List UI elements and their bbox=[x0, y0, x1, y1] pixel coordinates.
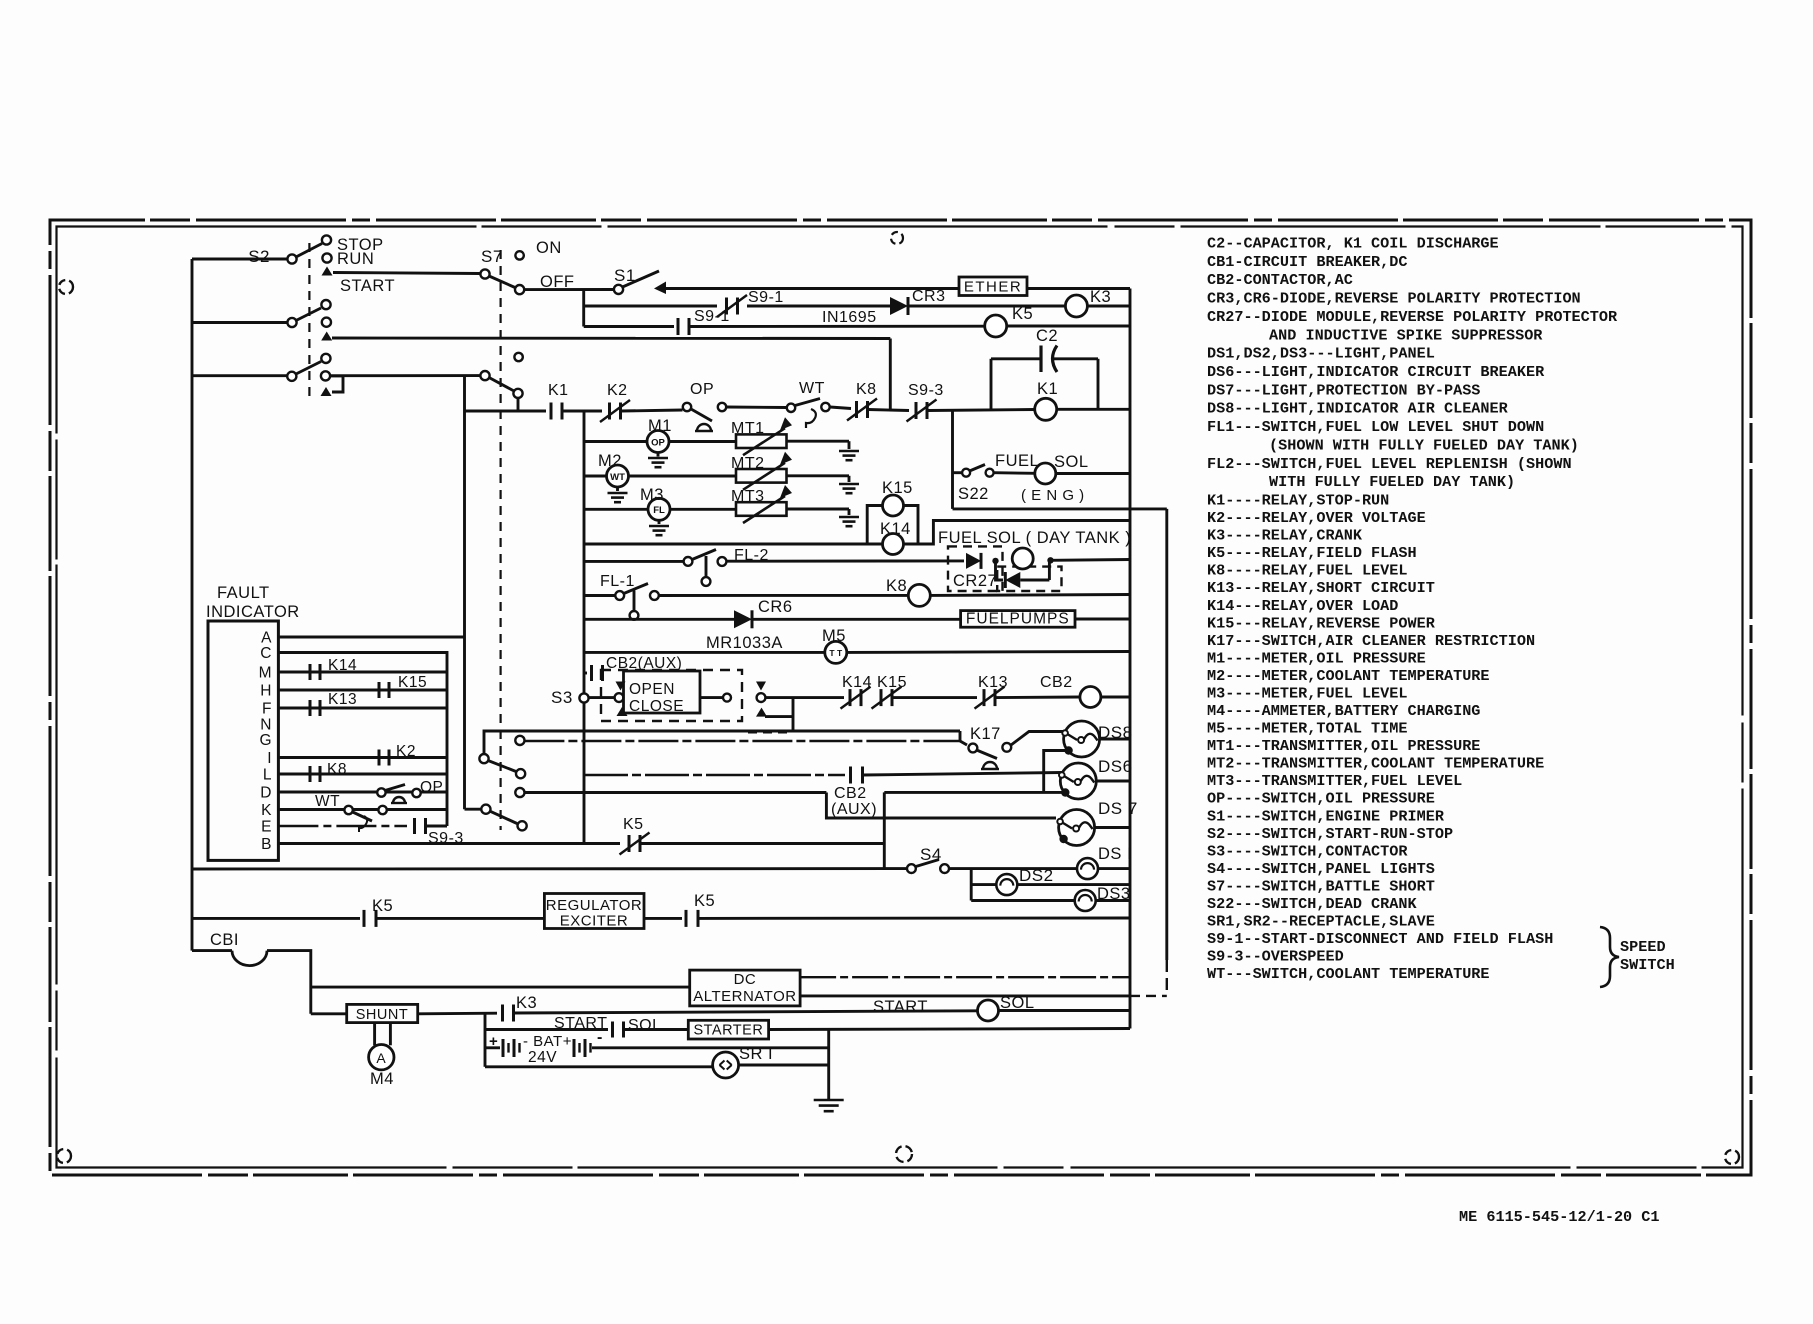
svg-text:K14---RELAY,OVER LOAD: K14---RELAY,OVER LOAD bbox=[1207, 597, 1398, 615]
svg-text:DC: DC bbox=[734, 971, 757, 988]
wire K15 to K13 bbox=[893, 696, 977, 699]
wire S2 pole2 feed bbox=[192, 321, 287, 324]
wire S9-1 NO row bbox=[584, 325, 674, 328]
svg-text:K15: K15 bbox=[877, 674, 907, 691]
svg-text:S2: S2 bbox=[248, 247, 270, 266]
wire DS3 to right bus bbox=[1096, 899, 1130, 902]
wire bus to CB1 bbox=[192, 949, 232, 952]
svg-text:C2--CAPACITOR, K1 COIL DISCHAR: C2--CAPACITOR, K1 COIL DISCHARGE bbox=[1207, 235, 1499, 253]
wire CR6 to FUELPUMPS bbox=[752, 618, 961, 621]
switch pole B bbox=[481, 805, 490, 814]
svg-text:K5: K5 bbox=[1012, 305, 1033, 323]
contactor coil CB2 bbox=[1080, 687, 1101, 708]
wire C2 bracket right bbox=[1097, 359, 1100, 409]
svg-text:K3----RELAY,CRANK: K3----RELAY,CRANK bbox=[1207, 527, 1363, 545]
svg-text:K1: K1 bbox=[1037, 380, 1058, 398]
wire S22 enclosure left vertical bbox=[951, 411, 954, 509]
contact K3 crank bbox=[501, 1005, 504, 1022]
wire K8 coil to right bus bbox=[930, 593, 1130, 597]
svg-text:G: G bbox=[259, 732, 272, 749]
wire MT2 to ground bbox=[787, 474, 850, 477]
registration mark bottom center bbox=[896, 1146, 912, 1162]
svg-text:SOL: SOL bbox=[1054, 453, 1089, 471]
riser to S4 row bbox=[883, 792, 886, 868]
contact K5 second bbox=[685, 910, 688, 927]
svg-text:K13: K13 bbox=[978, 674, 1008, 691]
wire fault row F bbox=[278, 707, 447, 710]
wire fault row C bbox=[278, 653, 447, 827]
svg-text:OPEN: OPEN bbox=[629, 681, 675, 698]
switch S2 pole3 bbox=[287, 372, 296, 381]
contact K14 fault bbox=[309, 664, 312, 680]
ground after MT2 bbox=[848, 476, 851, 482]
wire M3 to MT3 bbox=[670, 508, 736, 511]
wire MT3 to ground bbox=[787, 508, 850, 511]
lamp DS1 panel bbox=[1077, 858, 1098, 879]
wire ENG enclosure bottom row bbox=[953, 507, 1167, 510]
relay coil K3 bbox=[1065, 295, 1087, 317]
svg-text:REGULATOR: REGULATOR bbox=[546, 897, 642, 914]
svg-text:SOL: SOL bbox=[628, 1017, 662, 1034]
svg-text:DS6---LIGHT,INDICATOR CIRCUIT: DS6---LIGHT,INDICATOR CIRCUIT BREAKER bbox=[1207, 363, 1545, 381]
svg-text:START: START bbox=[340, 277, 395, 295]
wire S2 pole3 step bbox=[330, 376, 343, 392]
border frame inner bbox=[57, 227, 1743, 1168]
svg-text:K8----RELAY,FUEL LEVEL: K8----RELAY,FUEL LEVEL bbox=[1207, 562, 1408, 580]
contact K15 normally closed bbox=[880, 689, 883, 706]
wire S2 pole3 row to S7 pole2 bbox=[330, 374, 480, 377]
wire K2-OP bbox=[621, 410, 683, 411]
svg-text:START: START bbox=[873, 998, 928, 1016]
wire pole B throw row bbox=[524, 791, 826, 794]
svg-text:WT: WT bbox=[610, 472, 625, 483]
svg-text:FL-1: FL-1 bbox=[600, 573, 635, 590]
wire S9-1 NC to CR3 bbox=[747, 305, 890, 308]
contact K2 normally closed bbox=[608, 403, 611, 420]
node day tank right bbox=[1047, 557, 1053, 563]
svg-text:STARTER: STARTER bbox=[693, 1023, 763, 1039]
wire fault row H bbox=[278, 689, 447, 692]
switch S3 terminal bbox=[579, 693, 588, 702]
contact S9-3 fault bbox=[413, 818, 416, 834]
wire K5 to regulator box bbox=[376, 917, 544, 920]
svg-text:DS6: DS6 bbox=[1098, 757, 1133, 776]
svg-text:K5: K5 bbox=[372, 897, 393, 915]
wire DS8 to right bus bbox=[1100, 738, 1130, 741]
wire contact row start bbox=[465, 410, 547, 413]
wire K3 coil to right bus bbox=[1087, 305, 1130, 308]
wire FL1 to K8 coil bbox=[659, 594, 909, 597]
wire S9-1 NC row bbox=[584, 305, 717, 308]
wire left bus vertical bbox=[191, 259, 194, 951]
wire alternator feed row bbox=[311, 986, 690, 989]
switch FL-2 bbox=[684, 557, 693, 566]
svg-text:-: - bbox=[597, 1029, 603, 1046]
switch S7 pole2 bbox=[480, 371, 489, 380]
svg-text:M2: M2 bbox=[598, 452, 622, 470]
receptacle SR1 bbox=[713, 1052, 739, 1078]
wire M5 row bbox=[584, 651, 825, 654]
wire pole A common riser bbox=[484, 731, 960, 759]
svg-text:FL1---SWITCH,FUEL LOW LEVEL SH: FL1---SWITCH,FUEL LOW LEVEL SHUT DOWN bbox=[1207, 418, 1544, 436]
svg-text:MT3---TRANSMITTER,FUEL LEVEL: MT3---TRANSMITTER,FUEL LEVEL bbox=[1207, 772, 1462, 790]
wire M1 to MT1 bbox=[669, 440, 736, 443]
wire S4 to DS1 bbox=[949, 867, 1077, 870]
svg-text:C2: C2 bbox=[1036, 327, 1058, 345]
wire CB2 aux to DS6 bbox=[863, 773, 1063, 776]
svg-text:DS2: DS2 bbox=[1019, 866, 1054, 885]
battery loop right vertical bbox=[827, 1029, 830, 1100]
contact K8 normally closed bbox=[855, 401, 858, 418]
dashed enclosure around contactor switch bbox=[601, 670, 742, 721]
meter M1 oil pressure bbox=[647, 431, 669, 453]
wire S22 to fuel solenoid bbox=[994, 471, 1035, 474]
svg-text:S4: S4 bbox=[920, 845, 942, 864]
wire DS6 to right bus bbox=[1096, 780, 1130, 783]
svg-text:24V: 24V bbox=[528, 1049, 557, 1066]
svg-text:K3: K3 bbox=[516, 994, 537, 1012]
svg-text:RUN: RUN bbox=[337, 250, 374, 268]
svg-text:CB1-CIRCUIT BREAKER,DC: CB1-CIRCUIT BREAKER,DC bbox=[1207, 253, 1408, 271]
registration mark left bbox=[59, 280, 73, 294]
OPEN CLOSE box bbox=[624, 671, 701, 713]
svg-text:K14: K14 bbox=[842, 674, 872, 691]
lamp DS6 circuit breaker indicator bbox=[1060, 763, 1096, 799]
wire S2 pole1 feed bbox=[192, 258, 287, 261]
wire K1 coil to right bus bbox=[1057, 408, 1130, 411]
contact S9-3 normally closed bbox=[915, 402, 918, 419]
registration mark top center bbox=[891, 232, 903, 244]
relay K1 coil bbox=[1035, 398, 1057, 420]
diode CR27 bypass bbox=[996, 561, 1004, 580]
switch pole A bbox=[479, 754, 488, 763]
svg-text:IN1695: IN1695 bbox=[822, 309, 877, 326]
svg-text:A: A bbox=[376, 1050, 386, 1066]
svg-text:S9-1: S9-1 bbox=[694, 308, 730, 325]
svg-text:K8: K8 bbox=[327, 761, 347, 778]
contact K1 normally open bbox=[550, 403, 553, 420]
FUELPUMPS box bbox=[961, 611, 1075, 628]
wire row B continue bbox=[641, 842, 884, 845]
wire starter row bbox=[485, 1028, 608, 1031]
svg-text:K5: K5 bbox=[694, 892, 715, 910]
ETHER box bbox=[959, 277, 1027, 296]
svg-text:ON: ON bbox=[536, 239, 562, 257]
wire DS3 row bbox=[971, 899, 1074, 902]
switch OP fault bbox=[377, 788, 385, 796]
svg-text:MT2---TRANSMITTER,COOLANT TEMP: MT2---TRANSMITTER,COOLANT TEMPERATURE bbox=[1207, 755, 1544, 773]
wire fault row M bbox=[278, 671, 447, 674]
svg-text:S9-1: S9-1 bbox=[748, 289, 784, 306]
svg-text:MR1033A: MR1033A bbox=[706, 634, 783, 652]
feedback bus vertical right bbox=[1165, 509, 1168, 960]
wire step down to K17 row bbox=[959, 731, 962, 741]
svg-text:F: F bbox=[262, 701, 272, 718]
svg-text:N: N bbox=[260, 717, 272, 734]
svg-text:D: D bbox=[260, 785, 272, 802]
svg-text:CB2: CB2 bbox=[1040, 674, 1073, 691]
wire K5 second to right bus bbox=[698, 917, 1130, 920]
right bus vertical bbox=[1129, 289, 1132, 1029]
svg-text:S22: S22 bbox=[958, 485, 989, 503]
registration mark bottom right bbox=[1725, 1150, 1739, 1164]
wire M1 row bbox=[584, 440, 647, 443]
switch S2 mechanical dashed link bbox=[308, 243, 310, 399]
ammeter M4 bbox=[369, 1045, 394, 1070]
switch OP oil pressure bbox=[683, 403, 691, 411]
dashed module box CR27 outer bbox=[948, 546, 1003, 591]
wire fault E to block bus bbox=[426, 825, 447, 828]
svg-text:SR1,SR2--RECEPTACLE,SLAVE: SR1,SR2--RECEPTACLE,SLAVE bbox=[1207, 913, 1435, 931]
svg-text:WT: WT bbox=[315, 793, 340, 810]
svg-text:S22---SWITCH,DEAD CRANK: S22---SWITCH,DEAD CRANK bbox=[1207, 895, 1418, 913]
svg-text:( E N G ): ( E N G ) bbox=[1021, 487, 1085, 504]
wire M5 to right bus bbox=[847, 650, 1130, 654]
wire DS2 row bbox=[971, 883, 996, 886]
wire to K17 switch bbox=[960, 741, 967, 745]
svg-text:K3: K3 bbox=[1090, 288, 1111, 306]
svg-text:K8: K8 bbox=[856, 381, 877, 398]
legend speed switch brace bbox=[1600, 927, 1619, 987]
STARTER box bbox=[688, 1020, 768, 1039]
svg-text:K5----RELAY,FIELD FLASH: K5----RELAY,FIELD FLASH bbox=[1207, 544, 1417, 562]
DC ALTERNATOR box bbox=[690, 970, 800, 1006]
svg-text:- BAT+: - BAT+ bbox=[523, 1033, 572, 1050]
breaker CB1 arc bbox=[232, 951, 267, 966]
svg-text:A: A bbox=[261, 630, 272, 647]
lamp DS3 panel bbox=[1075, 890, 1096, 911]
registration mark bottom left bbox=[57, 1149, 71, 1163]
contact S9-1 normally open bbox=[677, 318, 680, 335]
svg-text:K8: K8 bbox=[886, 577, 907, 595]
svg-text:SWITCH: SWITCH bbox=[1620, 956, 1675, 974]
wire K14 row bbox=[584, 543, 883, 546]
meter M3 fuel level bbox=[648, 498, 670, 520]
svg-text:CR3,CR6-DIODE,REVERSE POLARITY: CR3,CR6-DIODE,REVERSE POLARITY PROTECTIO… bbox=[1207, 290, 1581, 308]
wire SR1 to right bbox=[739, 1064, 829, 1067]
wire S9-3 to K1 coil bbox=[928, 410, 1035, 411]
wire day tank to right bus bbox=[1051, 558, 1131, 562]
wire DS6 lower terminal row bbox=[884, 791, 1062, 794]
svg-text:K13: K13 bbox=[328, 691, 357, 708]
svg-text:K15---RELAY,REVERSE POWER: K15---RELAY,REVERSE POWER bbox=[1207, 614, 1436, 632]
switch WT fault bbox=[344, 806, 352, 814]
contact K14 normally closed bbox=[849, 689, 852, 706]
diode CR3 bbox=[890, 297, 908, 315]
svg-text:K14: K14 bbox=[328, 657, 357, 674]
dashed module box CR27 inner bbox=[997, 567, 1061, 591]
ammeter M4 legs bbox=[373, 1023, 376, 1046]
wire K1-K2 bbox=[562, 410, 602, 413]
wire riser from throw row bbox=[889, 339, 892, 411]
svg-text:CBI: CBI bbox=[210, 931, 239, 949]
wire S1 to ETHER box bbox=[665, 287, 959, 290]
wire alternator lower output bbox=[800, 994, 1130, 997]
ground after MT1 bbox=[848, 441, 851, 449]
wire S22 row bbox=[953, 471, 962, 474]
wire regulator to K5 second bbox=[644, 917, 682, 920]
svg-text:K1----RELAY,STOP-RUN: K1----RELAY,STOP-RUN bbox=[1207, 492, 1389, 510]
wire S2 pole2 throw row bbox=[332, 337, 890, 340]
svg-text:K17---SWITCH,AIR CLEANER RESTR: K17---SWITCH,AIR CLEANER RESTRICTION bbox=[1207, 632, 1535, 650]
svg-text:CB2-CONTACTOR,AC: CB2-CONTACTOR,AC bbox=[1207, 271, 1353, 289]
svg-text:M5: M5 bbox=[822, 627, 846, 645]
svg-text:DS I: DS I bbox=[1098, 845, 1132, 863]
border frame outer bbox=[50, 220, 1751, 1175]
svg-text:FL2---SWITCH,FUEL LEVEL REPLEN: FL2---SWITCH,FUEL LEVEL REPLENISH (SHOWN bbox=[1207, 455, 1572, 473]
wire ETHER to right bus bbox=[1027, 287, 1130, 290]
contact K13 normally closed bbox=[983, 689, 986, 706]
lamp DS2 panel bbox=[996, 874, 1017, 895]
switch FL-1 bbox=[615, 591, 624, 600]
switch S7 pole1 bbox=[480, 269, 489, 278]
wire FUELPUMPS to right bus bbox=[1075, 618, 1130, 621]
svg-text:FUEL: FUEL bbox=[995, 452, 1039, 470]
contact K5 fault row bbox=[628, 835, 631, 852]
wire fault row A to bus bbox=[278, 636, 464, 639]
svg-text:K17: K17 bbox=[970, 725, 1001, 743]
relay coil K15 bbox=[883, 495, 904, 516]
wire CB2 aux row from S3 bus bbox=[584, 774, 845, 776]
contact K13 fault bbox=[309, 700, 312, 716]
wire to SHUNT bbox=[311, 1012, 347, 1015]
wire DS1 to right bus bbox=[1098, 867, 1130, 870]
wire OFF row to S1 bbox=[525, 288, 613, 291]
svg-text:DS7---LIGHT,PROTECTION BY-PASS: DS7---LIGHT,PROTECTION BY-PASS bbox=[1207, 381, 1480, 399]
svg-text:MT1: MT1 bbox=[731, 420, 765, 437]
svg-text:K2: K2 bbox=[396, 743, 416, 760]
solenoid FUEL SOL engine bbox=[1035, 463, 1056, 484]
svg-text:T T: T T bbox=[829, 648, 843, 658]
wire S4 row from left bus bbox=[192, 867, 907, 870]
wire fault row D bbox=[278, 791, 447, 794]
svg-text:CR3: CR3 bbox=[912, 288, 946, 305]
diode day tank forward bbox=[966, 553, 981, 569]
wire CB2 coil to right bus bbox=[1101, 696, 1130, 699]
svg-text:SPEED: SPEED bbox=[1620, 938, 1666, 956]
contactor pole2 contacts bbox=[723, 694, 731, 702]
wire K3 to start solenoid bbox=[514, 1011, 978, 1013]
wire K5 coil to right bus bbox=[1007, 325, 1130, 328]
svg-text:(SHOWN WITH FULLY FUELED DAY T: (SHOWN WITH FULLY FUELED DAY TANK) bbox=[1269, 436, 1579, 454]
svg-text:DS1,DS2,DS3---LIGHT,PANEL: DS1,DS2,DS3---LIGHT,PANEL bbox=[1207, 345, 1435, 363]
wire fault row B long bbox=[278, 842, 620, 845]
svg-text:CB2: CB2 bbox=[834, 785, 867, 802]
wire fault row L bbox=[278, 773, 447, 776]
lamp DS7 protection bypass bbox=[1059, 810, 1095, 846]
ground under M1 bbox=[657, 453, 660, 457]
svg-text:S1----SWITCH,ENGINE PRIMER: S1----SWITCH,ENGINE PRIMER bbox=[1207, 807, 1445, 825]
wire battery to right bbox=[592, 1046, 829, 1049]
wire M3 row bbox=[584, 508, 648, 511]
wire C2 bracket left bbox=[990, 359, 993, 409]
contact START SOL bbox=[611, 1022, 614, 1038]
diode CR6 bbox=[734, 610, 752, 628]
S3 bus drop bbox=[583, 703, 586, 844]
relay coil K14 bbox=[883, 534, 904, 555]
svg-text:FL: FL bbox=[653, 505, 665, 516]
svg-text:INDICATOR: INDICATOR bbox=[206, 603, 300, 621]
switch S2 pole2 bbox=[287, 318, 296, 327]
svg-text:S9-3: S9-3 bbox=[908, 382, 944, 399]
battery loop left vertical bbox=[484, 1014, 487, 1067]
switch S22 dead crank bbox=[962, 469, 970, 477]
transmitter MT2 bbox=[736, 469, 787, 483]
svg-text:B: B bbox=[261, 836, 272, 853]
svg-text:(AUX): (AUX) bbox=[831, 801, 877, 818]
ground after MT3 bbox=[848, 509, 851, 515]
wire M2 to MT2 bbox=[629, 475, 737, 478]
wire bottom loop bbox=[485, 1065, 713, 1068]
svg-text:SHUNT: SHUNT bbox=[356, 1007, 408, 1023]
wire START row to S7 bbox=[333, 273, 480, 274]
svg-text:S2----SWITCH,START-RUN-STOP: S2----SWITCH,START-RUN-STOP bbox=[1207, 825, 1453, 843]
svg-text:S7----SWITCH,BATTLE SHORT: S7----SWITCH,BATTLE SHORT bbox=[1207, 877, 1435, 895]
wire pole2 to K14 contact bbox=[766, 696, 845, 699]
ground under M3 bbox=[658, 520, 661, 524]
svg-text:CR27--DIODE MODULE,REVERSE POL: CR27--DIODE MODULE,REVERSE POLARITY PROT… bbox=[1207, 308, 1618, 326]
svg-text:ALTERNATOR: ALTERNATOR bbox=[693, 988, 796, 1005]
ground under M2 bbox=[616, 487, 619, 491]
wire DS2 to right bus bbox=[1017, 883, 1130, 886]
switch S2 pole1 bbox=[287, 254, 296, 263]
svg-text:FUEL SOL ( DAY TANK ): FUEL SOL ( DAY TANK ) bbox=[938, 529, 1131, 547]
svg-text:M5----METER,TOTAL TIME: M5----METER,TOTAL TIME bbox=[1207, 720, 1408, 738]
wire MT1 to ground bbox=[787, 440, 850, 443]
switch S4 panel lights bbox=[907, 864, 916, 873]
svg-text:DS8---LIGHT,INDICATOR AIR CLEA: DS8---LIGHT,INDICATOR AIR CLEANER bbox=[1207, 400, 1509, 418]
svg-text:ETHER: ETHER bbox=[964, 279, 1022, 296]
svg-text:SR I: SR I bbox=[739, 1045, 773, 1063]
svg-text:E: E bbox=[261, 819, 272, 836]
lamp DS8 air cleaner bbox=[1064, 721, 1100, 757]
svg-text:H: H bbox=[260, 683, 272, 700]
wire corner down to DS7 row bbox=[826, 793, 1056, 819]
svg-text:K2----RELAY,OVER VOLTAGE: K2----RELAY,OVER VOLTAGE bbox=[1207, 509, 1426, 527]
FAULT INDICATOR box bbox=[208, 621, 278, 860]
wire S3 to contactor switch bbox=[589, 696, 615, 699]
wire M2 row bbox=[584, 475, 607, 478]
relay coil K5 bbox=[985, 315, 1007, 337]
solenoid START SOL bbox=[978, 1000, 999, 1021]
wire K5 row from left bus bbox=[192, 917, 360, 920]
wire CB1 to corner bbox=[267, 951, 311, 1014]
REGULATOR EXCITER box bbox=[544, 894, 644, 929]
svg-text:K5: K5 bbox=[623, 816, 644, 833]
switch S7 mechanical dashed link bbox=[500, 250, 502, 830]
svg-text:AND INDUCTIVE SPIKE SUPPRESSOR: AND INDUCTIVE SPIKE SUPPRESSOR bbox=[1269, 326, 1543, 344]
svg-text:S9-1--START-DISCONNECT AND FIE: S9-1--START-DISCONNECT AND FIELD FLASH bbox=[1207, 930, 1553, 948]
wire K8-junction bbox=[868, 410, 909, 411]
svg-text:K1: K1 bbox=[548, 382, 569, 399]
wire fault row K bbox=[278, 808, 447, 811]
OPEN marker bbox=[616, 682, 626, 691]
contact K2 fault bbox=[378, 750, 381, 766]
wire S2 pole3 feed bbox=[192, 374, 287, 377]
wire drop to DS2 DS3 bbox=[970, 869, 973, 901]
wire fuel sol to right bus bbox=[1056, 472, 1130, 475]
svg-text:M4----AMMETER,BATTERY CHARGING: M4----AMMETER,BATTERY CHARGING bbox=[1207, 702, 1480, 720]
wire OP-WT bbox=[727, 406, 787, 409]
wire alternator output extension bbox=[1130, 995, 1167, 997]
contactor position switch common bbox=[615, 693, 624, 702]
wire STARTER to right loop bbox=[769, 1029, 1130, 1030]
switch S1 bbox=[614, 285, 623, 294]
wire FL2 to day tank solenoid bbox=[726, 559, 964, 562]
meter bus vertical bbox=[583, 411, 586, 693]
meter M2 coolant temperature bbox=[607, 465, 629, 487]
svg-text:S3: S3 bbox=[551, 688, 573, 707]
